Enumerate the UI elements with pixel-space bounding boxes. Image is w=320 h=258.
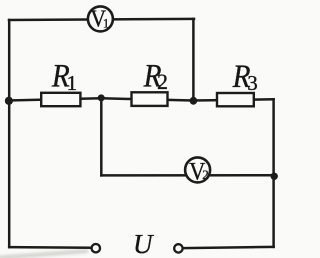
node junction R1-R2 [98, 94, 105, 101]
svg-text:1: 1 [103, 16, 109, 30]
svg-text:2: 2 [157, 69, 168, 94]
label R3 [232, 58, 258, 95]
voltmeter V2 [185, 157, 210, 185]
resistor R1 [41, 93, 80, 106]
wire top rail [9, 19, 194, 20]
svg-text:2: 2 [202, 167, 209, 182]
svg-text:3: 3 [247, 71, 257, 95]
wire bottom left [9, 246, 91, 249]
wire bottom right [183, 247, 273, 248]
node junction left rail [5, 97, 13, 105]
wire middle rail [9, 98, 274, 100]
node junction R2-R3 [190, 97, 198, 105]
wire V2 rail [101, 174, 273, 177]
wire top-right vertical [192, 19, 195, 101]
resistor R3 [217, 93, 254, 106]
svg-text:1: 1 [67, 71, 78, 95]
node junction V2 right [271, 173, 278, 180]
wire right vertical [272, 99, 275, 247]
terminal left [92, 244, 100, 252]
terminal right [174, 244, 182, 252]
wire left vertical [8, 20, 11, 247]
voltmeter V1 [88, 5, 113, 32]
label R1 [51, 57, 77, 95]
resistor R2 [132, 92, 168, 106]
label R2 [143, 57, 168, 94]
svg-text:U: U [133, 229, 154, 258]
wire V2 branch drop [100, 98, 103, 175]
